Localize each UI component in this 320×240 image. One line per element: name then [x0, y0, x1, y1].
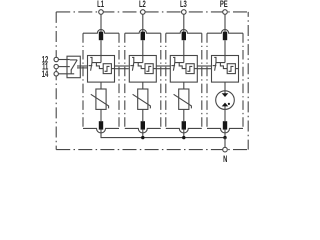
thermal disconnect contact (top, filled) — [223, 32, 227, 41]
step-function glyph — [229, 66, 234, 71]
varistor RV1 body — [96, 89, 106, 109]
step-function glyph — [105, 66, 110, 71]
wire disconnector to switch box — [224, 40, 226, 62]
svg-text:14: 14 — [42, 68, 49, 79]
wire terminal 11 to contact box — [58, 66, 69, 68]
wire from spark gap lower electrode — [224, 106, 226, 110]
wire into spark gap upper electrode — [224, 89, 226, 94]
switch release tick — [213, 65, 217, 67]
changeover contact: 12 contact rail — [70, 59, 77, 61]
svg-text:PE: PE — [220, 0, 228, 10]
wire disconnector to switch box — [142, 40, 144, 62]
device enclosure bottom boundary (dash-dot) — [56, 149, 248, 151]
wire bottom contact to N bus — [224, 130, 226, 139]
wire varistor to bottom contact — [100, 109, 102, 121]
varistor RV2 body — [138, 89, 148, 109]
wire from L2 terminal down to disconnector — [142, 14, 144, 32]
terminal N — [223, 147, 228, 152]
wire switch box to arrester element — [142, 82, 144, 89]
module 1 (L1 path) dash-dot border left — [82, 33, 84, 128]
indicator output stub — [235, 68, 238, 70]
switch symbol: contact post — [132, 57, 143, 62]
device enclosure left boundary (dash-dot) — [55, 12, 57, 150]
mechanical linkage to next module (double line) — [115, 65, 129, 67]
module 2 top edge with plug-contact arch — [125, 30, 161, 34]
switch symbol: contact post — [90, 57, 101, 62]
link from switch to status indicator (jog) — [179, 63, 186, 69]
wire switch box to arrester element — [100, 82, 102, 89]
spark gap lower electrode (up arrow) — [222, 103, 229, 107]
terminal 14 — [54, 72, 58, 76]
terminal 11 — [54, 64, 58, 68]
varistor RV1 diagonal stroke — [91, 94, 109, 108]
module 1 bottom edge with plug-contact cup — [83, 128, 119, 133]
mechanical linkage to next module (double line) — [197, 65, 211, 67]
svg-text:L2: L2 — [139, 0, 146, 10]
svg-text:L3: L3 — [180, 0, 187, 10]
wire terminal 14 to contact box — [58, 73, 74, 75]
spark gap upper electrode (down arrow) — [222, 93, 229, 97]
varistor RV3 body — [179, 89, 189, 109]
terminal PE — [223, 10, 228, 15]
wire bottom contact to N bus — [100, 130, 102, 139]
module 4 (PE path) dash-dot border right — [242, 33, 244, 128]
thermal disconnect contact (top, filled) — [99, 32, 103, 41]
wire from L1 terminal down to disconnector — [100, 14, 102, 32]
wire terminal 12 to contact box — [58, 59, 69, 61]
bottom plug contact (filled) — [223, 121, 227, 129]
module 3 (L3 path) dash-dot border left — [165, 33, 167, 128]
terminal 12 — [54, 57, 58, 61]
link from switch to status indicator (jog) — [220, 63, 227, 69]
terminal L3 — [182, 10, 187, 15]
wire bottom contact to N bus — [142, 130, 144, 139]
wire disconnector to switch box — [100, 40, 102, 62]
disconnector & monitoring box U4 — [212, 56, 239, 83]
spark gap F1 (gas discharge tube) circle — [216, 91, 235, 110]
changeover contact blade — [71, 60, 77, 70]
svg-text:L1: L1 — [97, 0, 104, 10]
switch release tick — [130, 65, 134, 67]
wire disconnector to switch box — [183, 40, 185, 62]
wire switch box to arrester element — [224, 82, 226, 89]
wire switch box to arrester element — [183, 82, 185, 89]
wire from L3 terminal down to disconnector — [183, 14, 185, 32]
step-function glyph — [187, 66, 192, 71]
indicator output stub — [194, 68, 197, 70]
wire varistor to bottom contact — [183, 109, 185, 121]
module 4 top edge with plug-contact arch — [207, 30, 243, 34]
wire spark gap to bottom contact — [224, 109, 226, 121]
module 2 bottom edge with plug-contact cup — [125, 128, 161, 133]
step-function glyph — [146, 66, 151, 71]
module 3 bottom edge with plug-contact cup — [166, 128, 202, 133]
junction node L2/N bus — [141, 136, 144, 139]
link from switch to status indicator (jog) — [138, 63, 145, 69]
module 2 (L2 path) dash-dot border right — [160, 33, 162, 128]
varistor RV2 diagonal stroke — [133, 94, 151, 108]
module 3 (L3 path) dash-dot border right — [201, 33, 203, 128]
switch blade — [91, 63, 92, 71]
status indicator box — [103, 64, 111, 74]
wire bottom contact to N bus — [183, 130, 185, 139]
module 4 (PE path) dash-dot border left — [206, 33, 208, 128]
disconnector & monitoring box U1 — [88, 56, 115, 83]
disconnector & monitoring box U3 — [170, 56, 197, 83]
terminal L1 — [99, 10, 104, 15]
indicator output stub — [153, 68, 156, 70]
switch release tick — [171, 65, 175, 67]
mechanical linkage to next module (double line) — [156, 65, 170, 67]
bottom plug contact (filled) — [99, 121, 103, 129]
module 2 (L2 path) dash-dot border left — [124, 33, 126, 128]
module 4 bottom edge with plug-contact cup — [207, 128, 243, 133]
status indicator box — [186, 64, 194, 74]
indicator output stub — [111, 68, 114, 70]
module 1 (L1 path) dash-dot border right — [118, 33, 120, 128]
bottom plug contact (filled) — [182, 121, 186, 129]
varistor RV3 diagonal stroke — [174, 94, 192, 108]
switch symbol: contact post — [214, 57, 225, 62]
module 1 top edge with plug-contact arch — [83, 30, 119, 34]
terminal L2 — [141, 10, 146, 15]
N bus wire — [101, 137, 225, 139]
wire from PE terminal down to disconnector — [224, 14, 226, 32]
switch release tick — [89, 65, 93, 67]
switch blade — [132, 63, 133, 71]
device enclosure right boundary (dash-dot) — [247, 12, 249, 150]
gas-filled indicator dot — [228, 103, 230, 105]
switch blade — [173, 63, 174, 71]
junction node spark-gap/N bus — [223, 136, 226, 139]
mechanical linkage contact box to module 1 (double line) — [77, 65, 88, 67]
module 3 top edge with plug-contact arch — [166, 30, 202, 34]
changeover contact: 14 contact tick — [70, 70, 72, 74]
link from switch to status indicator (jog) — [96, 63, 103, 69]
status indicator box — [145, 64, 153, 74]
wire N bus to N terminal — [224, 138, 226, 148]
svg-text:N: N — [223, 154, 227, 164]
bottom plug contact (filled) — [141, 121, 145, 129]
disconnector & monitoring box U2 — [129, 56, 156, 83]
remote signalling contact box — [67, 56, 80, 77]
switch symbol: contact post — [173, 57, 184, 62]
device enclosure top boundary (dash-dot) — [56, 11, 248, 13]
thermal disconnect contact (top, filled) — [182, 32, 186, 41]
status indicator box — [227, 64, 235, 74]
junction node L3/N bus — [182, 136, 185, 139]
switch blade — [215, 63, 216, 71]
thermal disconnect contact (top, filled) — [141, 32, 145, 41]
wire varistor to bottom contact — [142, 109, 144, 121]
